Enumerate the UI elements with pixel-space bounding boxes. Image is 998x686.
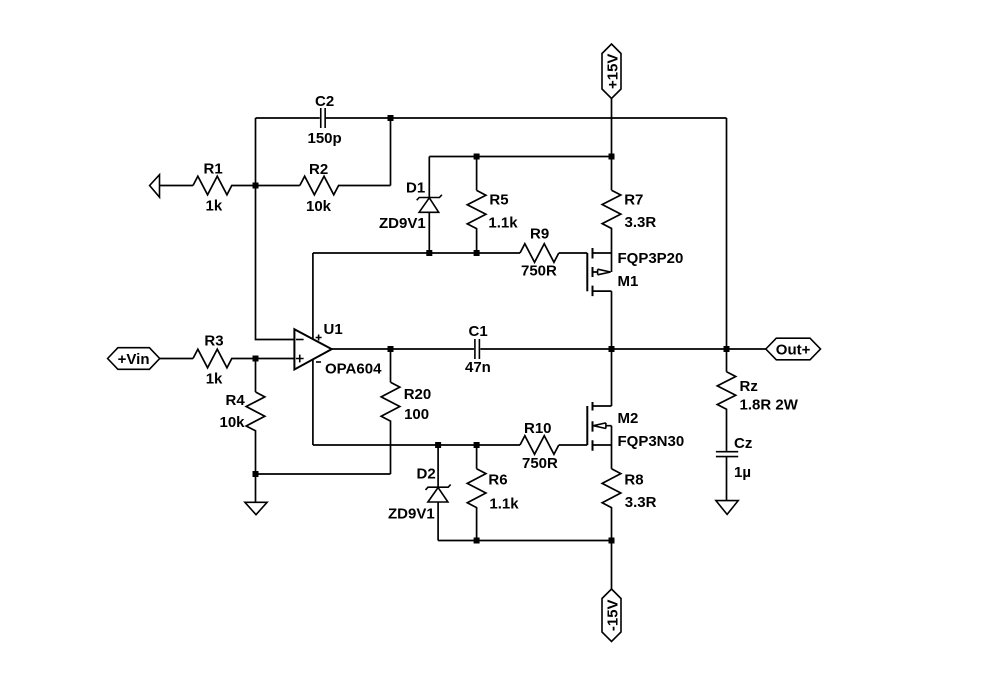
junction dot D1 bottom [426, 250, 432, 256]
svg-text:Rz: Rz [740, 378, 758, 395]
wire: op-amp V+ rail y=253 and M1 gate lead [313, 252, 587, 254]
wire: bottom rail y=540.5 [438, 540, 611, 542]
resistor Rz [717, 349, 798, 451]
svg-text:C1: C1 [469, 323, 488, 340]
svg-text:Cz: Cz [734, 435, 752, 452]
svg-text:U1: U1 [324, 321, 343, 338]
svg-text:+Vin: +Vin [118, 351, 150, 368]
svg-text:10k: 10k [306, 198, 332, 215]
svg-text:D1: D1 [406, 180, 425, 197]
svg-text:R7: R7 [624, 192, 643, 209]
wire: zener top rail y=156.5 [429, 156, 611, 158]
svg-text:M1: M1 [618, 273, 639, 290]
wire: -15V stem [611, 541, 613, 590]
svg-text:750R: 750R [521, 263, 557, 280]
wire: output right vertical x=726.5 [726, 118, 728, 349]
svg-text:R5: R5 [489, 192, 508, 209]
junction dot R5 bottom [474, 250, 480, 256]
junction dot R8 bottom / -15V [609, 538, 615, 544]
resistor R20 [381, 349, 431, 474]
junction dot at C2 right / R2 [388, 115, 394, 121]
wire: op-amp output y=349 [332, 348, 766, 350]
svg-text:1.1k: 1.1k [489, 495, 519, 512]
svg-text:FQP3N30: FQP3N30 [618, 433, 685, 450]
svg-text:R6: R6 [488, 471, 507, 488]
svg-text:R2: R2 [309, 161, 328, 178]
wire: op-amp V+ pin vertical [312, 253, 314, 339]
svg-text:1k: 1k [206, 370, 223, 387]
svg-text:R20: R20 [404, 386, 432, 403]
svg-text:D2: D2 [417, 466, 436, 483]
resistor R9 [520, 226, 559, 280]
junction dot R6 bottom [474, 538, 480, 544]
svg-text:3.3R: 3.3R [625, 214, 657, 231]
svg-text:R4: R4 [226, 392, 246, 409]
capacitor C1 [465, 323, 491, 376]
svg-text:R1: R1 [204, 161, 223, 178]
ground symbol (left) [245, 474, 267, 515]
svg-text:ZD9V1: ZD9V1 [379, 215, 426, 232]
input port arrow (R1 left) [150, 175, 160, 198]
resistor R1 [160, 161, 256, 215]
capacitor C2 [308, 93, 342, 147]
wire: op-amp V- rail y=445 and M2 gate lead [313, 444, 587, 446]
wire: ground wire y=474 [256, 473, 391, 475]
resistor R8 [602, 469, 656, 541]
junction dot R4 bottom / ground [253, 471, 259, 477]
svg-text:+15V: +15V [604, 54, 621, 89]
port flag Out+ [766, 338, 821, 360]
wire: +15V stem [611, 99, 613, 157]
resistor R2 [256, 161, 391, 215]
zener diode D1 [379, 157, 442, 254]
svg-text:47n: 47n [465, 359, 491, 376]
resistor R5 [467, 157, 518, 254]
svg-text:OPA604: OPA604 [325, 361, 382, 378]
wire: inverting node vertical x=255.5 and lead to op-amp [256, 118, 295, 340]
resistor R6 [467, 445, 519, 541]
svg-text:3.3R: 3.3R [625, 494, 657, 511]
junction dot R6 top [474, 442, 480, 448]
svg-text:10k: 10k [220, 414, 246, 431]
port flag +Vin [108, 348, 160, 370]
transistor M1 (FQP3P20 P-MOSFET) [587, 248, 683, 349]
svg-text:1µ: 1µ [734, 464, 751, 481]
svg-text:R3: R3 [204, 333, 223, 350]
svg-text:M2: M2 [618, 410, 639, 427]
wire: top feedback rail y=118 [256, 117, 727, 119]
power flag +15V [602, 44, 621, 99]
resistor R4 [220, 359, 265, 475]
wire: R2/C2 right vertical x=390.5 [390, 118, 392, 186]
svg-text:Out+: Out+ [776, 341, 811, 358]
junction dot R1/R2/inverting node [253, 183, 259, 189]
svg-text:750R: 750R [522, 455, 558, 472]
junction dot output node right [724, 346, 730, 352]
svg-text:R10: R10 [524, 420, 552, 437]
junction dot +15V/R7/rail1 [609, 154, 615, 160]
svg-text:R9: R9 [530, 226, 549, 243]
junction dot M1/M2 drains on output [609, 346, 615, 352]
svg-text:-15V: -15V [604, 599, 621, 631]
resistor R3 [160, 333, 295, 388]
wire: op-amp V- pin vertical [312, 359, 314, 445]
capacitor Cz [716, 435, 752, 481]
transistor M2 (FQP3N30 N-MOSFET) [587, 349, 684, 469]
svg-text:150p: 150p [308, 130, 342, 147]
svg-text:1k: 1k [206, 198, 223, 215]
resistor R7 [602, 157, 656, 254]
power flag -15V [602, 589, 621, 642]
svg-text:1.1k: 1.1k [488, 215, 518, 232]
svg-text:100: 100 [404, 406, 429, 423]
ground symbol (right, below Cz) [716, 457, 738, 515]
resistor R10 [520, 420, 559, 472]
svg-text:1.8R 2W: 1.8R 2W [740, 397, 799, 414]
junction dot R5 top [474, 154, 480, 160]
junction dot R3/R4/non-inverting [253, 356, 259, 362]
svg-text:R8: R8 [624, 471, 643, 488]
zener diode D2 [388, 445, 451, 541]
svg-text:C2: C2 [315, 93, 334, 110]
op-amp U1 [294, 321, 382, 378]
junction dot op-amp output / R20 [388, 346, 394, 352]
svg-text:FQP3P20: FQP3P20 [618, 250, 684, 267]
junction dot D2 top [435, 442, 441, 448]
svg-text:ZD9V1: ZD9V1 [388, 506, 435, 523]
